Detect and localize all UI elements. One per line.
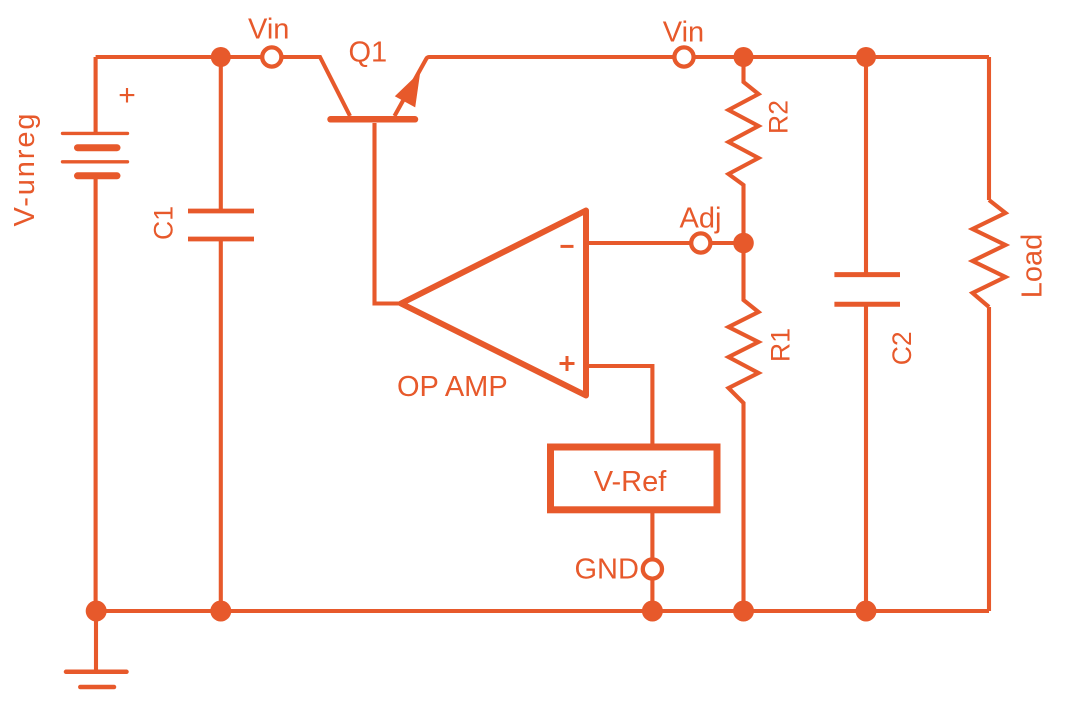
junction top C2 bbox=[856, 47, 876, 67]
transistor Q1 emitter arrowhead bbox=[395, 72, 421, 108]
op-amp plus symbol bbox=[560, 356, 575, 371]
V-Ref box bbox=[551, 447, 718, 510]
junction Adj node bbox=[733, 233, 754, 254]
svg-text:Vin: Vin bbox=[663, 17, 704, 49]
svg-text:+: + bbox=[118, 79, 136, 112]
svg-text:Vin: Vin bbox=[248, 14, 289, 46]
svg-text:R2: R2 bbox=[764, 100, 794, 134]
ground symbol bbox=[66, 611, 127, 687]
wire left rail below battery bbox=[94, 176, 98, 611]
junction bottom C2 bbox=[856, 601, 877, 622]
battery V-unreg bbox=[63, 133, 128, 175]
svg-text:V-unreg: V-unreg bbox=[9, 112, 41, 227]
wire op-amp inverting input to Adj node bbox=[586, 241, 744, 245]
wire op-amp non-inverting input to V-Ref bbox=[586, 366, 652, 444]
wire top rail right segment (Q1 emitter to top-right corner) bbox=[395, 57, 990, 116]
op-amp minus symbol bbox=[561, 245, 574, 248]
wire top rail left segment (battery to Q1 collector) bbox=[96, 57, 350, 116]
node Adj terminal circle bbox=[691, 233, 710, 252]
wire C1 branch bbox=[219, 57, 223, 611]
node Vin terminal circle (left) bbox=[262, 47, 281, 66]
junction bottom C1 bbox=[210, 601, 231, 622]
resistor Load bbox=[973, 200, 1006, 307]
svg-text:Adj: Adj bbox=[680, 203, 722, 235]
resistor R1 bbox=[729, 243, 759, 611]
wire Q1 base lead down to op-amp output bbox=[375, 123, 402, 304]
svg-text:R1: R1 bbox=[766, 328, 796, 362]
svg-text:Q1: Q1 bbox=[349, 37, 388, 69]
junction bottom left bbox=[86, 601, 107, 622]
svg-text:C2: C2 bbox=[887, 331, 917, 365]
wire bottom rail bbox=[96, 609, 989, 613]
junction top C1 bbox=[211, 47, 231, 67]
transistor Q1 base bar bbox=[331, 116, 416, 123]
junction top R2 bbox=[734, 47, 754, 67]
svg-text:OP AMP: OP AMP bbox=[397, 371, 508, 403]
node GND terminal circle bbox=[643, 559, 662, 578]
resistor R2 bbox=[729, 57, 759, 243]
capacitor C1 bbox=[188, 211, 254, 239]
wire left rail (battery branch) bbox=[94, 57, 98, 133]
svg-text:Load: Load bbox=[1017, 234, 1049, 299]
svg-text:V-Ref: V-Ref bbox=[594, 466, 667, 498]
node Vin terminal circle (right) bbox=[674, 47, 693, 66]
svg-text:GND: GND bbox=[575, 554, 639, 586]
wire C2 branch bbox=[864, 57, 868, 611]
junction bottom GND bbox=[642, 601, 663, 622]
wire right rail (load branch) bbox=[987, 57, 991, 611]
svg-text:C1: C1 bbox=[149, 206, 179, 240]
capacitor C2 bbox=[834, 275, 900, 305]
op-amp U1 triangle bbox=[401, 211, 586, 396]
junction bottom R1 bbox=[733, 601, 754, 622]
wire V-Ref to GND node bbox=[650, 513, 654, 611]
